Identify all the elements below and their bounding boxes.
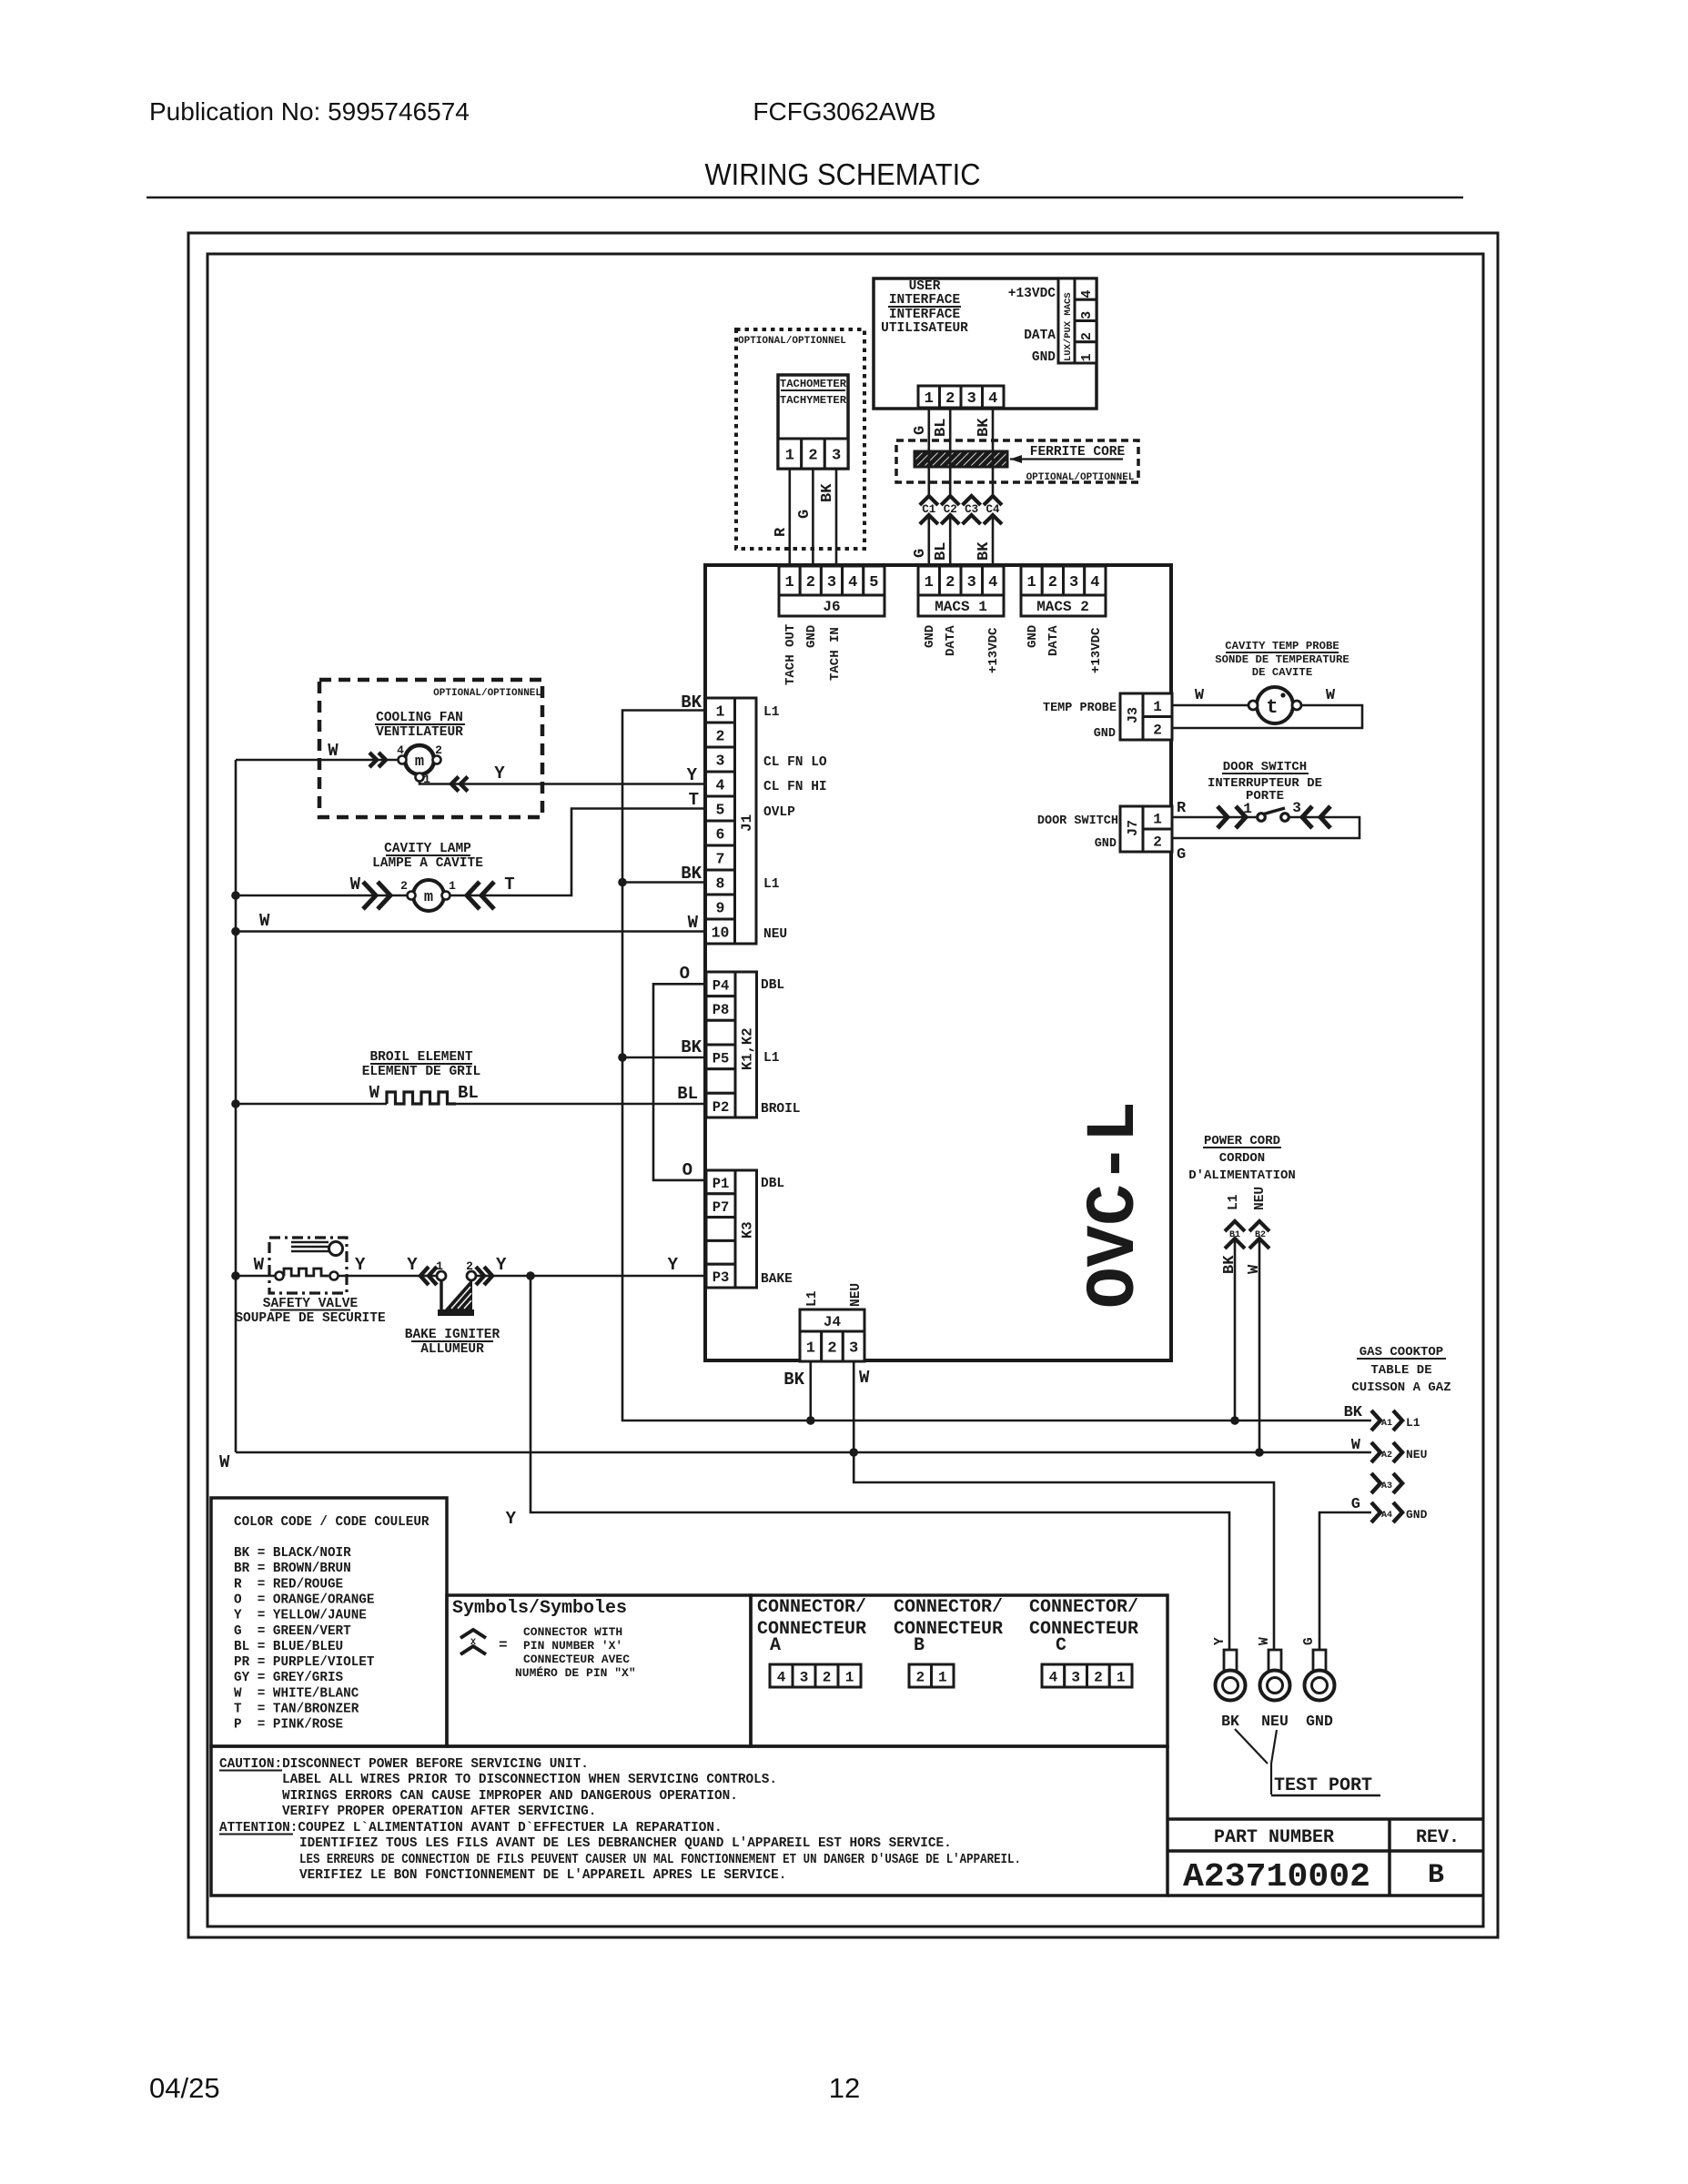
svg-text:CONNECTEUR: CONNECTEUR	[1029, 1619, 1138, 1640]
svg-text:Y: Y	[407, 1255, 418, 1275]
svg-text:REV.: REV.	[1416, 1827, 1460, 1848]
connector pair C1	[920, 496, 938, 505]
svg-text:L1: L1	[763, 705, 780, 720]
svg-text:A2: A2	[1381, 1451, 1392, 1461]
wire user interface pin to C2 upper segment	[949, 408, 952, 496]
svg-text:DATA: DATA	[944, 625, 958, 656]
svg-text:PR = PURPLE/VIOLET: PR = PURPLE/VIOLET	[234, 1655, 375, 1670]
svg-text:BK: BK	[1344, 1404, 1363, 1421]
svg-text:SOUPAPE DE SECURITE: SOUPAPE DE SECURITE	[235, 1311, 386, 1326]
connector pinout legend box	[751, 1595, 1167, 1746]
svg-text:DOOR SWITCH: DOOR SWITCH	[1223, 760, 1307, 774]
svg-text:2: 2	[945, 390, 955, 408]
node BK bus / K1K2 P5	[618, 1053, 627, 1062]
svg-text:W: W	[1246, 1264, 1263, 1274]
svg-text:R: R	[773, 527, 790, 537]
svg-text:BL: BL	[677, 1084, 698, 1104]
wire B1 to BK bus	[1234, 1239, 1237, 1421]
connector J7 pins 1-2	[1143, 806, 1172, 829]
svg-text:VENTILATEUR: VENTILATEUR	[376, 725, 463, 740]
svg-text:GND: GND	[804, 625, 819, 648]
svg-text:SONDE DE TEMPERATURE: SONDE DE TEMPERATURE	[1215, 653, 1349, 666]
svg-text:2: 2	[435, 743, 442, 757]
svg-text:NEU: NEU	[1406, 1448, 1427, 1461]
svg-text:P5: P5	[713, 1051, 730, 1067]
wire door switch return to J7 pin2	[1172, 817, 1359, 838]
svg-text:m: m	[424, 889, 433, 906]
svg-text:P = PINK/ROSE: P = PINK/ROSE	[234, 1718, 343, 1733]
svg-text:W: W	[1326, 687, 1336, 704]
svg-text:G: G	[1302, 1637, 1317, 1645]
svg-text:L1: L1	[1227, 1194, 1241, 1210]
svg-text:G: G	[796, 510, 814, 519]
svg-text:3: 3	[827, 574, 836, 591]
svg-text:A3: A3	[1381, 1481, 1392, 1491]
user interface module U1	[874, 278, 1097, 409]
node J4 pin3 / W bus	[849, 1448, 858, 1457]
svg-text:2: 2	[945, 574, 955, 591]
wire tach pin3 BK to J6 pin3	[835, 469, 838, 566]
svg-text:Y: Y	[1213, 1637, 1228, 1645]
power cord connector B2	[1249, 1221, 1269, 1231]
tachometer pins 1-3	[778, 439, 802, 469]
svg-text:C: C	[1056, 1635, 1066, 1656]
svg-text:2: 2	[823, 1669, 832, 1685]
svg-text:t: t	[1266, 696, 1278, 719]
svg-text:GND: GND	[1094, 727, 1116, 741]
svg-text:BL: BL	[933, 419, 950, 437]
connector K3 cells P1 P7 P3	[706, 1170, 735, 1194]
wire igniter to K3 P3	[476, 1275, 705, 1278]
svg-text:1: 1	[1027, 574, 1036, 591]
svg-text:3: 3	[1292, 800, 1301, 816]
svg-text:BK: BK	[1221, 1713, 1239, 1730]
svg-text:GND: GND	[1026, 625, 1040, 648]
node W bus / cavity lamp	[231, 891, 240, 900]
safety valve element	[276, 1272, 284, 1280]
svg-text:FCFG3062AWB: FCFG3062AWB	[753, 97, 935, 126]
svg-text:L1: L1	[1406, 1416, 1420, 1430]
svg-text:3: 3	[967, 390, 976, 408]
wire BK L1 bus from J1 pin1	[622, 711, 1371, 1421]
wire C1 to MACS 1 lower segment	[927, 515, 930, 566]
svg-text:DOOR SWITCH: DOOR SWITCH	[1037, 814, 1118, 828]
svg-text:W: W	[1258, 1637, 1272, 1645]
svg-text:=: =	[499, 1637, 508, 1653]
wire B2 to W bus	[1258, 1239, 1261, 1452]
svg-text:BK: BK	[681, 864, 702, 884]
svg-text:CL FN HI: CL FN HI	[763, 780, 827, 794]
connector A4 GND	[1371, 1502, 1380, 1522]
svg-text:W: W	[1351, 1437, 1361, 1454]
underline ATTENTION	[219, 1834, 293, 1835]
svg-text:L1: L1	[763, 1051, 780, 1066]
node igniter junction Y	[526, 1271, 535, 1280]
svg-text:W: W	[259, 911, 270, 931]
svg-text:W: W	[1195, 687, 1205, 704]
svg-text:2: 2	[716, 728, 725, 745]
svg-text:BK = BLACK/NOIR: BK = BLACK/NOIR	[234, 1546, 351, 1561]
svg-text:O: O	[680, 964, 690, 984]
test port ring terminal GND	[1313, 1650, 1326, 1671]
svg-text:NEU: NEU	[849, 1283, 864, 1307]
svg-text:W: W	[254, 1255, 265, 1275]
svg-text:GND: GND	[923, 625, 937, 648]
svg-text:OPTIONAL/OPTIONNEL: OPTIONAL/OPTIONNEL	[433, 688, 541, 699]
svg-text:GAS COOKTOP: GAS COOKTOP	[1359, 1345, 1443, 1360]
svg-text:Y: Y	[506, 1509, 517, 1529]
svg-text:GND: GND	[1032, 350, 1056, 365]
svg-text:IDENTIFIEZ TOUS LES FILS AVANT: IDENTIFIEZ TOUS LES FILS AVANT DE LES DE…	[299, 1836, 952, 1851]
connector on lamp W wire	[363, 882, 376, 909]
svg-text:6: 6	[716, 826, 725, 844]
svg-text:Y = YELLOW/JAUNE: Y = YELLOW/JAUNE	[234, 1609, 367, 1623]
svg-text:VERIFIEZ LE BON FONCTIONNEMENT: VERIFIEZ LE BON FONCTIONNEMENT DE L'APPA…	[299, 1868, 786, 1883]
svg-text:BL: BL	[933, 542, 950, 561]
svg-text:1: 1	[716, 703, 725, 721]
svg-text:P1: P1	[713, 1176, 730, 1192]
wire probe return to J3 pin2	[1172, 705, 1362, 728]
wire user interface pin to C1 upper segment	[927, 408, 930, 496]
connector LUX/PUX MACS	[1058, 278, 1075, 363]
title rule	[147, 197, 1463, 198]
test port ring terminal NEU	[1269, 1650, 1281, 1671]
svg-text:1: 1	[938, 1669, 947, 1685]
wire O bracket P4 to P1	[653, 984, 705, 1180]
svg-text:P2: P2	[713, 1099, 730, 1116]
svg-text:CAVITY LAMP: CAVITY LAMP	[384, 842, 471, 856]
connector K3 label	[735, 1170, 757, 1288]
bake igniter terminal 1	[437, 1271, 446, 1280]
svg-text:P7: P7	[713, 1199, 730, 1216]
svg-text:CL FN LO: CL FN LO	[763, 755, 827, 770]
bake igniter terminal 2	[467, 1271, 476, 1280]
svg-text:2: 2	[1094, 1669, 1103, 1685]
svg-text:3: 3	[1069, 574, 1078, 591]
svg-text:OVC-L: OVC-L	[1076, 1101, 1154, 1309]
svg-text:LUX/PUX MACS: LUX/PUX MACS	[1063, 292, 1074, 361]
svg-text:4: 4	[988, 574, 997, 591]
svg-text:PART NUMBER: PART NUMBER	[1214, 1827, 1334, 1848]
svg-text:BK: BK	[783, 1370, 804, 1390]
svg-text:OVLP: OVLP	[763, 805, 795, 820]
svg-text:TEST PORT: TEST PORT	[1274, 1775, 1372, 1796]
wire J4 pin1 BK down to L1 bus	[809, 1361, 812, 1421]
svg-text:BL = BLUE/BLEU: BL = BLUE/BLEU	[234, 1640, 343, 1654]
svg-text:2: 2	[827, 1340, 836, 1358]
connector pair C4	[984, 496, 1002, 505]
svg-text:BK: BK	[975, 418, 993, 437]
svg-text:ELEMENT DE GRIL: ELEMENT DE GRIL	[362, 1065, 481, 1079]
svg-text:BROIL: BROIL	[761, 1102, 801, 1117]
wire W to J1 pin10	[236, 930, 705, 933]
svg-text:7: 7	[716, 851, 725, 868]
svg-text:CUISSON A GAZ: CUISSON A GAZ	[1351, 1380, 1450, 1395]
svg-text:P4: P4	[713, 978, 730, 995]
svg-text:5: 5	[869, 574, 878, 591]
svg-text:1: 1	[925, 574, 934, 591]
connector J3 label	[1120, 693, 1143, 740]
svg-text:GND: GND	[1306, 1713, 1333, 1730]
svg-text:NEU: NEU	[1261, 1713, 1289, 1730]
wire W to cooling fan	[236, 759, 398, 762]
svg-text:G: G	[1177, 846, 1186, 864]
broil element heating element	[387, 1092, 456, 1104]
svg-text:P8: P8	[713, 1002, 730, 1018]
svg-text:2: 2	[1153, 723, 1162, 739]
svg-text:J1: J1	[739, 814, 755, 832]
safety valve solenoid symbol	[291, 1241, 329, 1244]
svg-text:WIRINGS ERRORS CAN CAUSE IMPRO: WIRINGS ERRORS CAN CAUSE IMPROPER AND DA…	[282, 1789, 738, 1804]
door switch S1	[1258, 814, 1266, 822]
underline CAUTION	[219, 1770, 282, 1772]
svg-text:DATA: DATA	[1046, 625, 1061, 656]
wire BL broil to P2	[456, 1103, 705, 1106]
svg-text:COOLING FAN: COOLING FAN	[376, 711, 463, 725]
svg-text:BR = BROWN/BRUN: BR = BROWN/BRUN	[234, 1562, 351, 1576]
svg-text:4: 4	[1090, 574, 1099, 591]
svg-text:12: 12	[829, 2072, 860, 2104]
connector K1,K2 label	[735, 972, 757, 1117]
svg-text:DATA: DATA	[1024, 329, 1056, 343]
connector MACS 1 pins 1-4	[918, 566, 940, 595]
svg-text:MACS 1: MACS 1	[935, 599, 987, 615]
node W bus / safety valve	[231, 1271, 240, 1280]
svg-text:J6: J6	[823, 599, 840, 615]
svg-text:BK: BK	[975, 541, 993, 561]
svg-text:MACS 2: MACS 2	[1036, 599, 1089, 615]
wire lamp T to J1 pin5	[450, 809, 705, 896]
svg-text:VERIFY PROPER OPERATION AFTER: VERIFY PROPER OPERATION AFTER SERVICING.	[282, 1805, 596, 1819]
svg-text:8: 8	[716, 875, 725, 893]
svg-text:COLOR CODE / CODE COULEUR: COLOR CODE / CODE COULEUR	[234, 1515, 430, 1530]
svg-text:G: G	[1351, 1496, 1360, 1513]
test port leader lines	[1235, 1729, 1268, 1764]
connector pair C3	[963, 496, 981, 505]
wire safety valve to bake igniter	[339, 1275, 438, 1278]
svg-text:Y: Y	[496, 1255, 507, 1275]
svg-text:TABLE DE: TABLE DE	[1370, 1363, 1431, 1378]
svg-text:A: A	[770, 1635, 781, 1656]
svg-text:G: G	[912, 426, 929, 435]
connector J1 label	[735, 698, 757, 944]
wire BK to P5	[622, 1057, 705, 1059]
node W bus / broil element	[231, 1099, 240, 1108]
svg-text:9: 9	[716, 900, 725, 917]
svg-text:OPTIONAL/OPTIONNEL: OPTIONAL/OPTIONNEL	[738, 336, 846, 347]
svg-text:3: 3	[800, 1669, 809, 1685]
svg-text:CONNECTEUR: CONNECTEUR	[894, 1619, 1003, 1640]
optional box ferrite core	[896, 440, 1138, 482]
connector J7 label	[1120, 806, 1143, 852]
svg-text:BK: BK	[1221, 1255, 1238, 1274]
svg-text:T = TAN/BRONZER: T = TAN/BRONZER	[234, 1703, 359, 1717]
svg-text:04/25: 04/25	[149, 2072, 220, 2104]
svg-text:BL: BL	[458, 1083, 479, 1103]
wire tach pin2 G to J6 pin2	[812, 469, 814, 566]
cooling fan motor M1	[405, 745, 434, 774]
svg-text:INTERFACE: INTERFACE	[889, 308, 961, 322]
svg-text:1: 1	[1153, 699, 1162, 715]
svg-text:2: 2	[915, 1669, 925, 1685]
wire W to safety valve	[236, 1275, 275, 1278]
svg-text:PIN NUMBER 'X': PIN NUMBER 'X'	[523, 1639, 622, 1653]
svg-text:TACHOMETER: TACHOMETER	[780, 378, 847, 390]
svg-text:3: 3	[849, 1340, 858, 1358]
cavity temp probe sensor	[1257, 687, 1293, 723]
symbols legend box	[447, 1595, 751, 1746]
svg-text:CONNECTOR/: CONNECTOR/	[894, 1597, 1003, 1618]
svg-text:INTERFACE: INTERFACE	[889, 293, 961, 308]
connector J3 pins 1-2	[1143, 693, 1172, 717]
wire user interface pin to C4 upper segment	[992, 408, 995, 496]
svg-text:1: 1	[806, 1340, 815, 1358]
svg-text:W: W	[328, 741, 339, 761]
svg-text:4: 4	[1079, 290, 1095, 298]
svg-text:2: 2	[1079, 332, 1095, 340]
svg-text:ATTENTION:COUPEZ L`ALIMENTATIO: ATTENTION:COUPEZ L`ALIMENTATION AVANT D`…	[219, 1821, 723, 1835]
svg-text:B: B	[1428, 1860, 1444, 1891]
svg-text:BK: BK	[681, 693, 702, 713]
caution text box	[211, 1746, 1167, 1896]
wire C4 to MACS 1 lower segment	[992, 515, 995, 566]
wire W to cavity lamp	[236, 895, 407, 897]
part number table	[1167, 1817, 1483, 1821]
connector pair C2	[941, 496, 959, 505]
svg-text:R = RED/ROUGE: R = RED/ROUGE	[234, 1577, 343, 1592]
connector MACS 2 label	[1021, 595, 1106, 616]
svg-text:T: T	[504, 875, 514, 895]
connector J6 label	[779, 595, 884, 616]
svg-text:1: 1	[1153, 812, 1162, 828]
tachometer TACHOMETER/TACHYMETER	[778, 375, 848, 469]
svg-text:GY = GREY/GRIS: GY = GREY/GRIS	[234, 1671, 344, 1685]
svg-text:3: 3	[1079, 311, 1095, 319]
svg-text:1: 1	[925, 390, 934, 408]
wire BK to J1 pin8	[622, 881, 705, 884]
svg-text:BROIL ELEMENT: BROIL ELEMENT	[369, 1050, 472, 1065]
svg-text:GND: GND	[1095, 837, 1117, 851]
wire J4 pin3 W down	[854, 1361, 1274, 1650]
svg-text:3: 3	[967, 574, 976, 591]
cavity lamp L1	[413, 880, 444, 911]
svg-text:CONNECTOR/: CONNECTOR/	[1029, 1597, 1138, 1618]
svg-text:2: 2	[400, 879, 408, 893]
svg-text:DE CAVITE: DE CAVITE	[1252, 666, 1312, 679]
svg-text:D'ALIMENTATION: D'ALIMENTATION	[1188, 1168, 1296, 1183]
svg-text:+13VDC: +13VDC	[1008, 287, 1056, 301]
svg-text:POWER CORD: POWER CORD	[1204, 1134, 1280, 1148]
svg-text:NEU: NEU	[1253, 1187, 1268, 1210]
svg-text:FERRITE CORE: FERRITE CORE	[1030, 445, 1126, 460]
user interface pin header pins 1-4	[918, 386, 940, 408]
svg-text:CONNECTEUR AVEC: CONNECTEUR AVEC	[523, 1653, 630, 1666]
connector A2 NEU	[1371, 1442, 1380, 1462]
svg-text:P3: P3	[713, 1269, 730, 1286]
connector J4 pins 1-3	[800, 1331, 822, 1361]
svg-text:A4: A4	[1381, 1511, 1392, 1521]
svg-text:3: 3	[1071, 1669, 1080, 1685]
svg-text:W: W	[350, 875, 361, 895]
svg-text:2: 2	[808, 448, 817, 465]
outer border frame	[188, 233, 1498, 1937]
svg-text:TEMP PROBE: TEMP PROBE	[1043, 702, 1117, 715]
connector MACS 1 label	[918, 595, 1004, 616]
svg-text:G: G	[912, 549, 929, 558]
svg-text:BK: BK	[819, 483, 836, 502]
svg-text:5: 5	[716, 802, 725, 819]
svg-text:+13VDC: +13VDC	[1089, 627, 1104, 673]
svg-text:UTILISATEUR: UTILISATEUR	[881, 321, 968, 336]
bake igniter element	[440, 1279, 443, 1310]
svg-text:NEU: NEU	[763, 927, 787, 942]
connector K1,K2 cells P4 P8 P5 P2	[706, 972, 735, 996]
svg-text:2: 2	[1048, 574, 1057, 591]
svg-text:J4: J4	[824, 1314, 842, 1330]
svg-text:3: 3	[716, 753, 725, 770]
svg-text:G = GREEN/VERT: G = GREEN/VERT	[234, 1624, 351, 1639]
svg-text:K1,K2: K1,K2	[740, 1027, 756, 1070]
svg-text:4: 4	[1049, 1669, 1058, 1685]
svg-text:USER: USER	[909, 279, 941, 294]
wire tach pin1 R to J6 pin1	[788, 469, 791, 566]
svg-text:W: W	[688, 913, 699, 933]
optional box tachometer OPTIONAL/OPTIONNEL	[736, 329, 864, 549]
wire fan Y to J1 pin4	[419, 782, 705, 784]
svg-text:CAVITY TEMP PROBE: CAVITY TEMP PROBE	[1225, 640, 1339, 652]
connector MACS 2 pins 1-4	[1021, 566, 1042, 595]
inner border frame	[207, 254, 1483, 1926]
svg-text:DBL: DBL	[761, 1177, 784, 1191]
svg-text:O = ORANGE/ORANGE: O = ORANGE/ORANGE	[234, 1592, 374, 1607]
connector on door switch wire right	[1302, 806, 1312, 828]
wire J3 pin1 W to probe	[1172, 704, 1248, 707]
svg-text:BAKE IGNITER: BAKE IGNITER	[405, 1328, 500, 1342]
connector A3	[1371, 1473, 1380, 1493]
svg-text:O: O	[682, 1160, 692, 1180]
wire W bus bottom run to gas cooktop A2	[236, 1451, 1371, 1454]
connector on lamp T wire	[467, 882, 480, 909]
power cord connector B1	[1225, 1221, 1245, 1231]
wire Y igniter drop to test port run	[531, 1276, 1229, 1650]
svg-text:1: 1	[1117, 1669, 1126, 1685]
node J4 pin1 / BK bus	[806, 1416, 815, 1425]
svg-text:NUMÉRO DE PIN "X": NUMÉRO DE PIN "X"	[515, 1666, 636, 1680]
connector J1 pins 1-10	[706, 698, 735, 723]
svg-text:4: 4	[988, 390, 997, 408]
svg-text:4: 4	[397, 743, 404, 757]
svg-text:TACH IN: TACH IN	[828, 627, 843, 681]
connector on igniter wire pin2	[476, 1267, 484, 1285]
svg-text:4: 4	[777, 1669, 786, 1685]
svg-text:2: 2	[806, 574, 815, 591]
svg-text:TACH OUT: TACH OUT	[783, 624, 798, 685]
svg-text:A1: A1	[1381, 1419, 1392, 1429]
svg-text:B: B	[914, 1635, 925, 1656]
connector on door switch wire left	[1218, 806, 1228, 828]
svg-text:BK: BK	[681, 1037, 702, 1057]
svg-text:CONNECTOR WITH: CONNECTOR WITH	[523, 1625, 622, 1639]
connector on fan W wire	[369, 753, 377, 767]
wire W to broil element	[236, 1103, 387, 1106]
svg-text:WIRING SCHEMATIC: WIRING SCHEMATIC	[705, 157, 981, 191]
svg-text:R: R	[1177, 800, 1187, 817]
svg-text:W: W	[219, 1452, 230, 1472]
connector A1 L1	[1371, 1410, 1380, 1431]
test port ring terminal BK	[1224, 1650, 1237, 1671]
svg-text:K3: K3	[740, 1221, 756, 1239]
svg-text:2: 2	[1153, 834, 1162, 851]
